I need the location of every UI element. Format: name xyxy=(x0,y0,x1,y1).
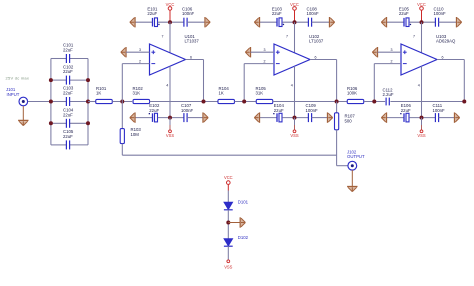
junction xyxy=(168,116,172,120)
node C junction xyxy=(242,100,246,104)
svg-text:4: 4 xyxy=(418,83,420,87)
svg-text:VCC: VCC xyxy=(417,2,426,7)
wire xyxy=(336,130,338,166)
svg-text:100nF: 100nF xyxy=(433,108,446,113)
svg-text:VCC: VCC xyxy=(166,2,175,7)
ground xyxy=(121,47,126,57)
wire xyxy=(227,210,229,239)
svg-text:3: 3 xyxy=(391,48,393,52)
wire xyxy=(228,222,240,224)
svg-text:D102: D102 xyxy=(238,235,249,240)
svg-text:OUTPUT: OUTPUT xyxy=(347,154,365,159)
wire xyxy=(387,21,404,23)
wire xyxy=(439,117,455,119)
svg-text:LT1037: LT1037 xyxy=(185,39,200,44)
wire xyxy=(88,101,96,103)
ground xyxy=(330,17,335,27)
svg-text:31K: 31K xyxy=(133,91,141,96)
wire xyxy=(260,21,277,23)
svg-text:VCC: VCC xyxy=(224,175,233,180)
wire pin 7 xyxy=(286,22,295,53)
ground xyxy=(254,112,259,122)
wire xyxy=(112,101,132,103)
ground xyxy=(381,112,386,122)
wire xyxy=(135,21,152,23)
capacitor C104 xyxy=(51,108,88,128)
resistor R104 xyxy=(218,86,235,103)
svg-text:22uF: 22uF xyxy=(401,108,411,113)
svg-text:500: 500 xyxy=(345,118,353,123)
svg-text:22uF: 22uF xyxy=(147,11,157,16)
svg-text:2: 2 xyxy=(391,60,393,64)
junction xyxy=(420,116,424,120)
wire xyxy=(364,101,385,103)
wire xyxy=(337,165,348,167)
wire pin 6 xyxy=(437,56,464,102)
wire xyxy=(390,101,464,103)
node F junction xyxy=(462,100,466,104)
connector J101 xyxy=(6,87,28,106)
wire xyxy=(282,21,308,23)
ground xyxy=(130,112,135,122)
wire pin 2 xyxy=(244,60,274,102)
svg-text:22uF: 22uF xyxy=(272,11,282,16)
svg-text:D101: D101 xyxy=(238,200,249,205)
op-amp U101 xyxy=(150,34,200,75)
wire pin 7 xyxy=(413,22,422,53)
wire xyxy=(227,246,229,260)
wire xyxy=(260,117,277,119)
svg-text:1K: 1K xyxy=(96,91,101,96)
wire xyxy=(282,117,308,119)
wire xyxy=(439,21,457,23)
capacitor C102 xyxy=(51,64,88,84)
wire pin 3 xyxy=(378,48,402,52)
svg-text:22uF: 22uF xyxy=(63,48,73,53)
text note 25V dc max xyxy=(6,76,30,81)
wire xyxy=(150,101,218,103)
ground xyxy=(457,17,462,27)
ground xyxy=(347,187,357,192)
junction xyxy=(168,20,172,24)
capacitor C103 xyxy=(51,86,88,106)
capacitor C110 xyxy=(434,6,447,26)
power VSS xyxy=(224,260,232,269)
svg-text:6: 6 xyxy=(190,56,192,60)
resistor R105 xyxy=(256,86,273,103)
ground xyxy=(18,120,28,125)
wire xyxy=(187,21,205,23)
node B junction xyxy=(202,100,206,104)
svg-text:6: 6 xyxy=(315,56,317,60)
svg-text:100nF: 100nF xyxy=(181,108,194,113)
svg-text:100nF: 100nF xyxy=(434,11,447,16)
op-amp U102 xyxy=(274,34,324,75)
wire pin 4 xyxy=(418,66,422,117)
svg-text:4: 4 xyxy=(291,83,293,87)
ground xyxy=(245,47,250,57)
svg-text:VCC: VCC xyxy=(290,2,299,7)
svg-text:VSS: VSS xyxy=(166,133,174,138)
capacitor C109 xyxy=(306,103,319,122)
wire xyxy=(336,102,338,113)
svg-text:3: 3 xyxy=(139,48,141,52)
wire xyxy=(22,106,24,120)
svg-text:6: 6 xyxy=(442,56,444,60)
ground xyxy=(203,112,208,122)
wire xyxy=(187,117,203,119)
svg-text:3: 3 xyxy=(264,48,266,52)
op-amp U103 xyxy=(401,34,456,75)
wire pin 4 xyxy=(291,66,295,117)
wire xyxy=(158,21,184,23)
svg-text:7: 7 xyxy=(413,35,415,39)
capacitor E106 xyxy=(400,103,411,122)
svg-text:7: 7 xyxy=(286,35,288,39)
wire xyxy=(387,117,404,119)
capacitor E101 xyxy=(147,6,159,26)
wire xyxy=(121,144,123,156)
capacitor C101 xyxy=(51,43,88,63)
svg-text:31K: 31K xyxy=(256,91,264,96)
wire xyxy=(28,101,51,103)
power VCC xyxy=(166,2,175,22)
power VSS xyxy=(166,118,174,139)
wire xyxy=(235,101,257,103)
wire pin 2 xyxy=(122,60,149,102)
ground xyxy=(254,17,259,27)
power VSS xyxy=(417,118,425,139)
wire xyxy=(158,117,184,119)
junction dots on cap bank rails xyxy=(49,78,90,125)
svg-text:2.2uF: 2.2uF xyxy=(383,92,394,97)
svg-text:VSS: VSS xyxy=(290,133,298,138)
wire xyxy=(87,59,89,145)
svg-text:INPUT: INPUT xyxy=(7,92,20,97)
wire xyxy=(227,191,229,203)
svg-text:VSS: VSS xyxy=(224,264,232,269)
wire xyxy=(351,170,353,186)
capacitor E104 xyxy=(273,103,284,122)
wire pin 3 xyxy=(251,48,275,52)
wire xyxy=(312,117,328,119)
svg-text:25V dc max: 25V dc max xyxy=(6,76,30,81)
capacitor E103 xyxy=(272,6,284,26)
svg-text:10M: 10M xyxy=(131,132,140,137)
capacitor E105 xyxy=(399,6,411,26)
wire xyxy=(273,101,347,103)
resistor R103 xyxy=(120,127,141,144)
svg-text:22uF: 22uF xyxy=(63,134,73,139)
ground xyxy=(381,17,386,27)
junction xyxy=(420,20,424,24)
capacitor E102 xyxy=(149,103,160,122)
svg-text:100K: 100K xyxy=(347,91,357,96)
svg-text:2: 2 xyxy=(139,60,141,64)
wire pin 3 xyxy=(126,48,150,52)
capacitor C108 xyxy=(307,6,320,26)
svg-text:100nF: 100nF xyxy=(306,108,319,113)
resistor R102 xyxy=(133,86,150,103)
capacitor C111 xyxy=(433,103,446,122)
junction xyxy=(293,116,297,120)
svg-text:22uF: 22uF xyxy=(63,69,73,74)
resistor R106 xyxy=(347,86,364,103)
power VSS xyxy=(290,118,298,139)
capacitor C106 xyxy=(182,6,195,26)
resistor R101 xyxy=(96,86,113,103)
resistor R107 xyxy=(335,113,356,130)
node E junction xyxy=(372,100,376,104)
svg-text:22uF: 22uF xyxy=(63,112,73,117)
svg-text:LT1037: LT1037 xyxy=(309,39,324,44)
wire xyxy=(135,117,152,119)
capacitor C105 xyxy=(51,129,88,149)
svg-text:VSS: VSS xyxy=(417,133,425,138)
wire pin 6 xyxy=(186,56,204,102)
ground xyxy=(240,217,245,227)
wire xyxy=(122,154,336,156)
svg-text:22uF: 22uF xyxy=(63,91,73,96)
wire xyxy=(409,117,435,119)
node G junction xyxy=(226,221,230,225)
node A junction xyxy=(120,100,124,104)
diode D101 xyxy=(224,200,249,210)
svg-text:7: 7 xyxy=(162,35,164,39)
ground xyxy=(455,112,460,122)
svg-text:AD629AQ: AD629AQ xyxy=(436,39,456,44)
power VCC xyxy=(290,2,299,22)
svg-text:1K: 1K xyxy=(219,91,224,96)
capacitor C112 xyxy=(383,88,394,106)
connector J102 xyxy=(347,150,365,171)
svg-text:22uF: 22uF xyxy=(149,108,159,113)
wire pin 4 xyxy=(166,66,170,117)
svg-text:100nF: 100nF xyxy=(307,11,320,16)
svg-text:22uF: 22uF xyxy=(399,11,409,16)
svg-text:4: 4 xyxy=(166,83,168,87)
ground xyxy=(130,17,135,27)
capacitor C107 xyxy=(181,103,194,122)
wire xyxy=(312,21,330,23)
ground xyxy=(372,47,377,57)
wire pin 2 xyxy=(374,60,401,102)
power VCC xyxy=(417,2,426,22)
wire xyxy=(121,102,123,129)
power VCC xyxy=(224,175,233,190)
ground xyxy=(205,17,210,27)
wire pin 7 xyxy=(162,22,171,53)
junction xyxy=(293,20,297,24)
wire xyxy=(409,21,435,23)
node D junction xyxy=(335,100,339,104)
svg-text:22uF: 22uF xyxy=(274,108,284,113)
ground xyxy=(328,112,333,122)
diode D102 xyxy=(224,235,249,246)
wire xyxy=(50,59,52,145)
wire pin 6 xyxy=(310,56,337,102)
svg-text:2: 2 xyxy=(264,60,266,64)
svg-text:100nF: 100nF xyxy=(182,11,195,16)
